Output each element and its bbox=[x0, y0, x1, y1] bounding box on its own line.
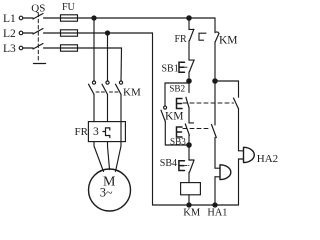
svg-text:KM: KM bbox=[123, 86, 141, 98]
svg-text:KM: KM bbox=[183, 208, 201, 219]
contactor KM auxiliary contact (alarm) bbox=[215, 32, 219, 42]
wire contact to HA2 bbox=[238, 108, 240, 150]
svg-text:HA1: HA1 bbox=[207, 208, 227, 219]
fuse FU1 bbox=[61, 15, 78, 21]
switch QS pole 1 blade bbox=[33, 14, 43, 20]
control rail from L1 tap: upper segment bbox=[188, 18, 190, 30]
bell HA2 bbox=[239, 147, 255, 162]
wire KM contact to node bbox=[214, 42, 216, 81]
switch QS linkage dashed bbox=[37, 13, 39, 63]
motor M circle bbox=[89, 169, 131, 211]
SB3-linked contact (HA1 branch) bbox=[212, 125, 217, 138]
junction dot above SB2 bbox=[187, 79, 191, 83]
KM self-hold branch wire (loop) bbox=[165, 83, 189, 106]
contactor KM main contact 1 bbox=[89, 81, 96, 94]
wire switch to fuse L1 bbox=[44, 17, 61, 19]
fuse FU3 bbox=[61, 45, 78, 51]
SB2-linked contact (HA2 branch) bbox=[234, 98, 239, 108]
pushbutton SB4 (NC) bbox=[179, 160, 194, 172]
KM auxiliary NO contact bbox=[161, 106, 167, 121]
svg-text:FR: FR bbox=[175, 34, 188, 45]
wire contact to HA1 bbox=[214, 138, 216, 169]
svg-text:HA2: HA2 bbox=[257, 153, 278, 165]
svg-text:SB4: SB4 bbox=[160, 158, 177, 169]
wire FR box to motor phase C bbox=[116, 142, 122, 172]
wire switch to fuse L3 bbox=[44, 47, 61, 49]
wire coil to bottom rail bbox=[188, 195, 190, 205]
junction dot HA1/bottom rail bbox=[213, 203, 217, 207]
svg-text:L1: L1 bbox=[3, 13, 16, 25]
switch QS pole 3 blade bbox=[33, 44, 43, 50]
svg-text:3: 3 bbox=[93, 126, 99, 138]
wire contact2 to FR box bbox=[107, 94, 109, 121]
svg-text:SB2: SB2 bbox=[169, 83, 185, 93]
wire contact1 to FR box bbox=[93, 94, 95, 121]
wire FR box to motor phase B bbox=[108, 142, 110, 170]
bell HA1 bbox=[215, 165, 231, 180]
SB2 linkage dashed line bbox=[183, 102, 234, 104]
wire SB4 to coil bbox=[188, 172, 190, 182]
wire L3 to switch bbox=[23, 47, 33, 49]
wire node to SB2 bbox=[188, 81, 190, 93]
wire SB3 node to SB4 bbox=[188, 135, 190, 159]
wire SB1 to node bbox=[188, 72, 190, 81]
wire branch to HA2 column bbox=[215, 81, 239, 97]
SB3 linkage dashed line bbox=[183, 128, 210, 130]
contactor KM main contact 3 bbox=[116, 81, 123, 94]
svg-text:FU: FU bbox=[62, 2, 76, 13]
junction dot coil/bottom rail bbox=[187, 203, 191, 207]
wire L2 bus to control drop bbox=[78, 32, 153, 34]
svg-text:SB1: SB1 bbox=[162, 63, 179, 74]
node L1 terminal bbox=[19, 16, 23, 20]
fuse FU2 bbox=[61, 30, 78, 36]
contactor KM main contact 2 bbox=[102, 81, 109, 94]
svg-text:L2: L2 bbox=[3, 28, 16, 40]
svg-text:SB3: SB3 bbox=[170, 137, 186, 147]
wire L2 to switch bbox=[23, 32, 33, 34]
FR heater element symbol bbox=[103, 128, 110, 138]
pushbutton SB2 (NO) bbox=[177, 97, 189, 108]
svg-text:FR: FR bbox=[75, 126, 89, 138]
KM main contacts linkage dashes bbox=[96, 91, 119, 93]
svg-text:3~: 3~ bbox=[100, 186, 113, 200]
wire top-right drop (middle rail upper) bbox=[214, 18, 216, 33]
wire FR to SB1 bbox=[188, 41, 190, 60]
wire FR box to motor phase A bbox=[94, 142, 104, 172]
KM self-hold branch lower wire bbox=[165, 122, 189, 146]
wire contact3 to FR box bbox=[120, 94, 122, 141]
wire switch to fuse L2 bbox=[44, 32, 61, 34]
svg-text:QS: QS bbox=[31, 3, 45, 15]
wire middle rail to SB3-linked contact bbox=[214, 81, 216, 125]
thermal relay FR heater box bbox=[88, 122, 125, 142]
junction dot L1/control tap bbox=[187, 16, 191, 20]
node L2 terminal bbox=[19, 31, 23, 35]
svg-text:KM: KM bbox=[165, 110, 184, 122]
svg-text:KM: KM bbox=[219, 34, 238, 46]
wire SB2 to SB3 bbox=[188, 107, 190, 122]
bottom control rail bbox=[153, 204, 239, 206]
wire L2 control drop bbox=[152, 33, 154, 205]
junction dot L2/phase-B tap bbox=[105, 31, 109, 35]
junction dot alarm branch bbox=[213, 79, 217, 83]
wire L1 to switch bbox=[23, 17, 33, 19]
junction dot L1/phase-A tap bbox=[92, 16, 96, 20]
wire HA1 to bottom rail bbox=[214, 177, 216, 205]
junction dot below SB3 bbox=[187, 143, 191, 147]
wire HA2 to bottom rail bbox=[238, 159, 240, 205]
switch QS handle bar bbox=[34, 63, 46, 65]
contactor coil KM bbox=[181, 183, 201, 195]
wire L1 bus to top-right corner bbox=[78, 17, 216, 19]
wire L3 bus bbox=[78, 48, 122, 81]
wire phase B drop bbox=[107, 33, 109, 81]
svg-text:L3: L3 bbox=[3, 43, 16, 55]
thermal relay FR NC contact bbox=[189, 29, 206, 41]
node L3 terminal bbox=[19, 46, 23, 50]
switch QS pole 2 blade bbox=[33, 29, 43, 35]
pushbutton SB1 (NC stop) bbox=[179, 60, 194, 72]
pushbutton SB3 (NC) bbox=[177, 123, 194, 137]
wire phase A drop bbox=[93, 18, 95, 81]
